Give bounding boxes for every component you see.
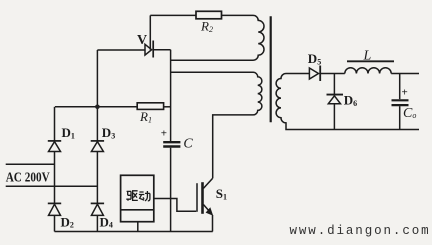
- svg-text:+: +: [402, 87, 408, 99]
- svg-text:C: C: [183, 136, 193, 151]
- svg-text:www.diangon.com: www.diangon.com: [290, 224, 431, 238]
- svg-text:AC 200V: AC 200V: [6, 170, 50, 185]
- svg-text:+: +: [161, 128, 167, 140]
- svg-text:V: V: [137, 33, 147, 48]
- svg-text:L: L: [363, 48, 372, 63]
